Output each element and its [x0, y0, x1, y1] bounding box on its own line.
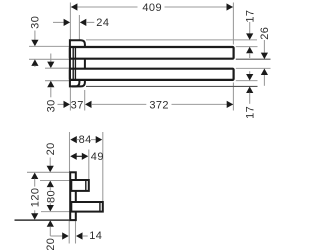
dim 84 left arrow [70, 136, 77, 143]
dim 14 leader horizontal [50, 235, 63, 237]
dim 372 left arrow [85, 101, 92, 108]
svg-text:17: 17 [245, 10, 257, 23]
dim 120 upper arrow [31, 173, 38, 180]
svg-text:14: 14 [89, 230, 102, 242]
svg-text:120: 120 [30, 188, 42, 208]
wall plate (top view) [70, 40, 85, 86]
dim 14 right tail [82, 235, 88, 237]
ext line bar1 top right [236, 46, 258, 48]
dim 30 top lower arrow [31, 59, 38, 66]
ext line bar2 bottom left [45, 80, 69, 82]
towel bar 2 (top view) [70, 69, 234, 80]
dim 20 top leader [49, 158, 51, 167]
dim 409 right arrow [227, 3, 234, 10]
dim 84 shaft [91, 139, 96, 141]
dim 120 line lower [34, 210, 36, 213]
svg-text:37: 37 [71, 100, 84, 112]
ext line x88.8 for 49 [88, 150, 90, 180]
ext line plate top left (side) [27, 171, 69, 173]
svg-text:49: 49 [91, 151, 104, 163]
dim 24 right arrow [80, 19, 87, 26]
dim 372 right arrow [227, 101, 234, 108]
ext line right x233.4 upper [232, 3, 234, 45]
svg-text:17: 17 [245, 106, 257, 119]
dim 80 line upper [49, 187, 51, 191]
ext line x69.5 (wall) [69, 132, 71, 172]
dim 26 upper arrow [261, 53, 268, 60]
ext line bar1 bottom right [236, 58, 271, 60]
ext line right x233.4 lower [232, 83, 234, 111]
dim 372 line right [172, 103, 234, 105]
towel bar 2 end cap line [99, 202, 101, 212]
dim 20 top lower arrow / dim 80 upper arrow [47, 181, 54, 188]
svg-text:24: 24 [96, 17, 109, 29]
dim 372 line left [91, 103, 146, 105]
towel bar 1 (side view) [71, 180, 89, 191]
svg-text:80: 80 [45, 190, 57, 203]
dim 17 bottom upper tail [249, 71, 251, 75]
dim 49 right arrow [82, 153, 89, 160]
dim 17 bottom leader [249, 93, 251, 104]
dim 26 lower arrow [261, 69, 268, 76]
svg-text:372: 372 [149, 100, 169, 112]
svg-text:26: 26 [259, 27, 271, 40]
ext line x84.7 below plate [84, 90, 86, 111]
dim 30 top upper arrow [31, 40, 38, 47]
dim 409 line [70, 6, 137, 8]
dim 14 right arrow [76, 232, 83, 239]
ext line x79.4 above plate [78, 15, 80, 40]
ext line bar2 top left [45, 67, 69, 69]
dim 409 left arrow [71, 3, 78, 10]
construction line plate top y40.2 [86, 39, 257, 41]
ext line bar2 top right [236, 67, 271, 69]
dim 26 leader [263, 40, 265, 53]
dim 17 bottom lower arrow [246, 87, 253, 94]
dim 20 top upper arrow [47, 166, 54, 173]
dim 17 top leader [249, 22, 251, 34]
wall plate (side view) [70, 172, 76, 220]
dim 30 bottom upper arrow [47, 62, 54, 69]
dim 17 top lower arrow [246, 47, 253, 54]
pivot stem line b [74, 47, 76, 80]
construction line plate bottom y86.4 [86, 85, 258, 87]
ext line x75.5 below plate [75, 221, 77, 244]
dim 30 bottom lower leader [50, 87, 52, 97]
dim 30 top leader [34, 31, 36, 42]
dim 24 left tail [53, 21, 64, 23]
ext line bar1 top left (side) [40, 180, 72, 182]
svg-text:30: 30 [46, 99, 58, 112]
ext line x69.2 below plate [68, 221, 70, 244]
ext line bar2 bottom right [236, 80, 258, 82]
pivot stem line a [72, 47, 74, 80]
dim 30 bottom upper leader [50, 54, 52, 63]
dim 14 left arrow [62, 232, 68, 239]
ext line bar2 bottom left (side) [41, 211, 72, 213]
dim 80 lower arrow / dim 20 bottom upper arrow [47, 205, 54, 212]
ext line x102.8 for 84 [102, 132, 104, 201]
ext line left x70.4 above plate [69, 3, 71, 41]
ext line left x70.4 below plate [69, 88, 71, 111]
svg-text:30: 30 [30, 16, 42, 29]
towel bar 2 (side view) [71, 202, 103, 212]
dim 80 line lower [49, 203, 51, 205]
ext line plate bottom (side) [15, 219, 70, 221]
towel bar 1 (top view) [70, 47, 234, 59]
dim 37 left arrow [64, 101, 71, 108]
towel bar 1 end cap line [85, 180, 87, 191]
dim 49 shaft [76, 155, 82, 157]
dim 17 bottom upper arrow [246, 74, 253, 81]
inner plate corner [72, 80, 79, 87]
dim 24 left arrow [64, 19, 71, 26]
dim 37 left tail [58, 103, 65, 105]
svg-text:20: 20 [45, 142, 57, 155]
svg-text:84: 84 [79, 134, 92, 146]
dim 17 top upper arrow [246, 33, 253, 40]
dim 120 lower arrow [31, 213, 38, 220]
svg-text:20: 20 [45, 238, 57, 250]
dim 20 bottom lower arrow [47, 220, 54, 227]
dim 120 line upper [34, 179, 36, 187]
ext line bar1 top left [29, 45, 69, 47]
dim 24 right tail [86, 21, 94, 23]
svg-text:409: 409 [142, 2, 162, 14]
dim 49 left arrow [70, 153, 77, 160]
dim 84 right arrow [96, 136, 103, 143]
dim 30 bottom lower arrow [47, 81, 54, 88]
dim 26 lower tail [263, 75, 265, 86]
dim 20 bottom leader vertical [49, 227, 51, 237]
ext line bar1 bottom left [29, 58, 69, 60]
